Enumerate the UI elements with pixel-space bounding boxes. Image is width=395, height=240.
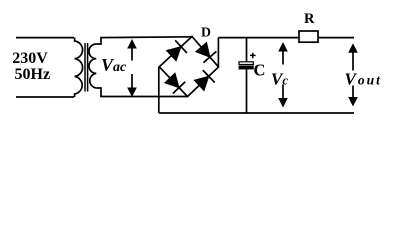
diode D3 (left-bottom arm, pointing to bottom node) xyxy=(165,73,185,93)
transformer T primary winding xyxy=(75,38,83,97)
wire: positive top rail, bridge to resistor xyxy=(218,37,299,39)
svg-text:R: R xyxy=(304,11,315,27)
svg-text:50Hz: 50Hz xyxy=(15,66,51,83)
transformer T core xyxy=(85,43,88,92)
Vout measurement arrow up xyxy=(348,43,358,70)
wire: AC mains bottom lead xyxy=(16,96,74,98)
Vout measurement arrow down xyxy=(348,86,358,107)
diode D2 (top-right arm, pointing to right node) xyxy=(196,43,217,63)
diode D1 (left-top arm, pointing to top node) xyxy=(167,40,187,61)
wire: secondary top terminal to bridge top node xyxy=(96,37,192,44)
svg-text:230V: 230V xyxy=(12,50,48,67)
Vac measurement arrow up xyxy=(127,39,137,61)
svg-text:D: D xyxy=(201,24,211,39)
label: + (capacitor polarity) xyxy=(250,53,256,58)
resistor R body xyxy=(299,31,318,42)
transformer T secondary winding xyxy=(89,44,96,88)
bridge rectifier diamond xyxy=(159,37,218,97)
capacitor C bottom stem xyxy=(246,69,248,113)
capacitor C bottom plate (solid) xyxy=(239,66,253,69)
wire: AC mains top lead xyxy=(16,37,74,39)
Vc measurement arrow up xyxy=(278,42,288,65)
capacitor C top plate (hollow) xyxy=(239,62,253,65)
wire: bridge right node up to positive rail xyxy=(217,38,219,67)
Vc measurement arrow down xyxy=(278,85,288,108)
Vac measurement arrow down xyxy=(127,74,137,97)
svg-text:Vout: Vout xyxy=(345,70,382,89)
svg-text:C: C xyxy=(254,61,266,80)
svg-text:Vc: Vc xyxy=(271,69,288,88)
diode D4 (bottom-right arm, pointing to right node) xyxy=(194,70,214,90)
wire: bridge left node down to negative rail (crosses AC wire, no junction) xyxy=(158,67,160,113)
capacitor C top stem xyxy=(246,38,248,62)
wire: secondary bottom terminal to bridge bottom node xyxy=(96,88,187,97)
wire: negative bottom rail xyxy=(159,112,354,114)
wire: positive top rail, resistor to output xyxy=(318,37,354,39)
